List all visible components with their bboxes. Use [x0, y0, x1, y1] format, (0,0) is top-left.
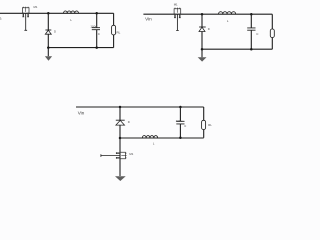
wire: bottom rail [48, 47, 113, 49]
diode D [45, 29, 51, 31]
ground [45, 56, 52, 61]
transistor M1 [22, 7, 29, 17]
wire: bottom rail [120, 137, 204, 139]
svg-text:M1: M1 [129, 152, 133, 156]
capacitor C branch wire [179, 107, 181, 138]
node: diode bottom junction [201, 48, 204, 51]
resistor RL [112, 25, 116, 35]
resistor RL [202, 120, 206, 129]
capacitor C branch wire [96, 13, 98, 47]
capacitor C plates [247, 28, 255, 30]
capacitor C branch wire [250, 14, 252, 49]
svg-text:D: D [208, 27, 210, 31]
svg-text:L: L [70, 18, 72, 22]
svg-text:RL: RL [208, 123, 212, 127]
capacitor C plates [176, 121, 184, 124]
node: junction of L/C [95, 12, 98, 15]
svg-text:L: L [227, 19, 229, 23]
wire: input rail from left edge to output corner [0, 12, 114, 14]
node: capacitor bottom junction [95, 46, 98, 49]
node: diode bottom junction [47, 46, 50, 49]
wire: switch branch vertical [119, 138, 121, 176]
node: junction of M1/diode [201, 13, 204, 16]
inductor L [219, 12, 236, 15]
node: junction diode/inductor/switch [119, 137, 122, 140]
svg-text:Vin: Vin [145, 17, 152, 22]
transistor M1 (rotated) [116, 152, 126, 159]
wire: ground stem [47, 48, 49, 57]
svg-text:C: C [256, 32, 259, 36]
wire: gate lead of M1 going left [101, 154, 120, 157]
svg-text:M1: M1 [34, 5, 38, 9]
inductor L [64, 11, 79, 13]
svg-text:M1: M1 [174, 3, 178, 7]
svg-text:Vin: Vin [78, 111, 85, 116]
node: junction of M1/diode [47, 12, 50, 15]
wire: gate lead of M1 going down [24, 13, 27, 30]
svg-text:D: D [128, 120, 130, 124]
wire: right side down to resistor [203, 107, 205, 138]
svg-text:100u: 100u [176, 119, 183, 123]
node: capacitor bottom junction [179, 137, 182, 140]
svg-text:L: L [153, 141, 155, 145]
svg-text:C: C [184, 124, 186, 128]
diode D branch wire [119, 107, 121, 138]
svg-text:Vin: Vin [0, 16, 2, 21]
svg-text:C: C [98, 32, 101, 36]
inductor L [142, 136, 157, 138]
wire: input rail [143, 13, 272, 15]
wire: right side down to resistor [271, 14, 273, 49]
ground [115, 176, 126, 181]
wire: bottom rail [202, 48, 272, 50]
diode D branch wire [47, 13, 49, 47]
node: junction rail/cap [179, 106, 182, 109]
resistor RL [270, 29, 274, 38]
svg-text:RL: RL [117, 30, 121, 34]
node: junction rail/diode [119, 106, 122, 109]
diode D [199, 26, 206, 28]
svg-text:100u: 100u [90, 24, 97, 28]
diode D [116, 119, 125, 121]
wire: input rail [76, 106, 204, 108]
node: capacitor bottom junction [250, 48, 253, 51]
wire: right side down to resistor [113, 13, 115, 47]
diode D branch wire [201, 14, 203, 49]
svg-text:D: D [54, 29, 56, 33]
node: junction of L/C [250, 13, 253, 16]
wire: gate lead of M1 going down [176, 14, 179, 30]
capacitor C plates [92, 28, 100, 30]
wire: ground stem [201, 49, 203, 57]
transistor M1 [174, 8, 181, 18]
ground [198, 57, 207, 61]
